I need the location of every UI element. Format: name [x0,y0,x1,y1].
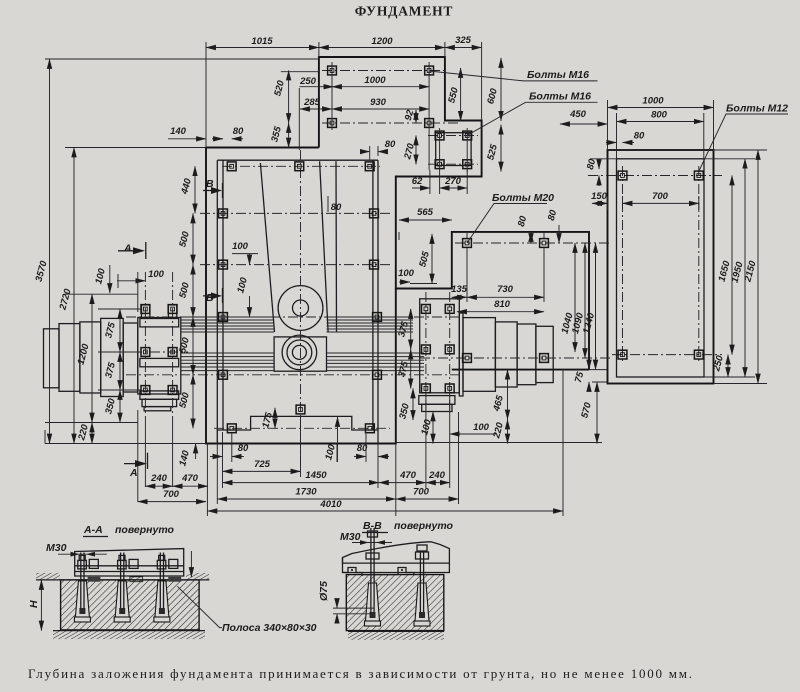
dim 355 [288,123,290,148]
foundation left edge [206,148,396,444]
svg-text:520: 520 [272,79,287,98]
svg-text:2720: 2720 [57,287,74,312]
right side extension verticals [467,233,544,302]
svg-text:100: 100 [93,267,108,286]
right ribbed shaft band lower [327,353,425,371]
dims 375 375 350 220 left plate [119,309,121,352]
svg-text:350: 350 [397,402,412,421]
dim 1200 [319,47,445,49]
dims 375 375 right plate [410,309,412,350]
svg-text:570: 570 [579,401,594,420]
svg-text:240: 240 [150,473,168,484]
central block inner flange lines [223,160,373,430]
foundation block hatched B-B [346,575,444,631]
studs A-A [81,553,164,613]
machine base plate A-A [75,549,184,576]
svg-text:730: 730 [497,284,514,295]
svg-text:375: 375 [396,360,411,379]
dim 440 [194,166,196,213]
svg-text:470: 470 [181,473,199,484]
svg-text:А: А [123,243,132,255]
dim 100 left edge bolts [249,254,251,265]
svg-text:700: 700 [413,487,430,498]
dim 3570 [49,59,51,444]
svg-text:80: 80 [634,131,645,142]
anchor sleeve bolt 3 [155,581,169,617]
dim 525 [500,125,502,172]
dim 565 [399,219,452,221]
anchor sleeve B-B bolt1 [366,583,380,621]
svg-text:100: 100 [232,241,249,252]
bolt row 1 top block [322,70,445,72]
dim 810 [457,311,544,313]
down arrow at plate right [190,551,192,577]
dim 505 [431,234,433,284]
right plan view outline [608,150,714,384]
svg-text:150: 150 [591,191,608,202]
svg-text:465: 465 [491,394,506,414]
dim 100 h right [450,433,496,435]
svg-text:80: 80 [233,126,244,137]
left plate columns [145,272,172,425]
foundation top-right block outline [319,57,589,370]
svg-text:350: 350 [103,397,118,416]
row3 1450 470 240 [223,482,379,484]
top nuts A-A bolt3 [157,560,166,569]
svg-text:700: 700 [163,489,180,500]
dims 240 470 700 bottom-left [145,485,172,487]
svg-text:135: 135 [451,284,468,295]
gear housing rect [274,337,326,371]
dim 140 [168,138,206,140]
svg-text:1000: 1000 [364,75,386,86]
svg-text:810: 810 [494,299,511,310]
dim 250 [300,86,334,88]
bolts right coupling plate [422,305,431,314]
big circle shaft [278,286,323,331]
housing webs [260,161,336,332]
svg-text:повернуто: повернуто [115,524,175,536]
bolts top edge of block [227,162,236,171]
M16 plate rows [428,136,478,165]
left motor shaft steps [44,318,138,396]
bolts M12 right plan [618,171,627,180]
svg-text:Глубина заложения фундамента п: Глубина заложения фундамента принимается… [28,666,692,681]
top nuts B-B [368,531,378,537]
bolt row 2 top block [322,122,460,124]
dims 80 80 at M20 [530,232,532,243]
anchor sleeve B-B bolt2 [415,583,429,621]
dim 92 [415,110,417,123]
dim 140 left flange [195,444,197,460]
dim 465 [507,370,509,420]
H dim A-A [40,580,42,631]
right plan extensions [608,100,768,384]
svg-text:505: 505 [417,250,432,269]
dim 75 [588,362,590,370]
leader bolts M12 [699,114,788,171]
dim 600 [500,58,502,121]
dim 220 right [507,420,509,444]
bottom bolt row [214,427,390,429]
bottom dims row1 [210,456,223,458]
top nuts A-A bolt1 [78,560,87,569]
right plan gap step lines [589,370,607,382]
dim 730 [467,296,544,298]
svg-text:А-А: А-А [83,524,103,536]
svg-text:100: 100 [148,269,165,280]
row4 1730 700 [217,498,395,500]
dim 350 right plate [412,388,414,420]
machine (gearbox) outline [181,160,424,443]
dim 100 rot right [432,412,434,444]
dim 135 [452,296,467,298]
svg-text:100: 100 [398,268,415,279]
anchor sleeve bolt 2 [115,581,129,617]
leader bolts M16 #2 [467,102,597,135]
stud bottom nuts B-B [370,612,376,618]
foundation pockets B-B [343,568,415,577]
svg-text:565: 565 [417,207,434,218]
dim 285 [300,108,332,110]
svg-text:92: 92 [403,108,417,122]
dim 1015 [206,47,319,49]
svg-text:285: 285 [303,97,321,108]
svg-text:75: 75 [573,370,587,384]
svg-text:М30: М30 [46,542,67,554]
svg-text:80: 80 [385,139,396,150]
left ribbed shaft band lower [181,353,274,371]
right plan dims [608,107,714,109]
svg-text:1015: 1015 [251,36,273,47]
dims 1040 1090 1240 [574,243,576,352]
svg-text:80: 80 [516,214,530,228]
M12 rows [588,176,722,355]
anchor sleeve bolt 1 [75,581,89,617]
leader polosa [177,586,222,627]
right ribbed shaft band upper [327,317,414,332]
svg-text:175: 175 [260,411,275,430]
dim 100 pair top of left plate [109,265,111,293]
svg-text:450: 450 [569,109,587,120]
svg-text:500: 500 [177,281,192,300]
bottom-right extension line [396,442,602,444]
foundation block hatched A-A [61,580,200,630]
svg-text:Болты М12: Болты М12 [726,103,788,115]
svg-text:ФУНДАМЕНТ: ФУНДАМЕНТ [355,4,453,19]
bottom dims row2 725 [223,470,301,472]
svg-text:800: 800 [651,110,668,121]
svg-text:80: 80 [331,202,342,213]
dim 520 [288,71,290,124]
svg-text:375: 375 [396,320,411,339]
bolts M16 row2 upper block [328,119,337,128]
M16 bolt plate (upper right) [436,133,471,166]
svg-text:Болты М16: Болты М16 [529,91,591,103]
bottom extension verticals [207,370,563,516]
svg-text:Ø75: Ø75 [318,581,330,601]
right plate columns [426,292,450,412]
stud bottom nuts A-A [79,608,85,614]
svg-text:80: 80 [546,208,560,222]
dim 80 top-left arrows out [212,138,223,140]
dim 570 [596,382,598,444]
bolts M16 row1 upper block [328,66,337,75]
left extents [45,294,206,443]
svg-text:375: 375 [103,321,118,340]
svg-text:250: 250 [299,76,317,87]
dim 62 [412,187,430,189]
dim 930 [332,108,429,110]
svg-text:4010: 4010 [319,499,342,510]
svg-text:140: 140 [170,126,187,137]
dims 500 x4 left [192,213,194,264]
bolts right edge column [370,209,379,218]
top nuts A-A bolt2 [118,560,127,569]
drive block bottom edge [452,369,589,371]
svg-text:1200: 1200 [76,342,92,366]
svg-text:220: 220 [76,423,91,443]
right shaft cone steps [459,313,553,396]
svg-text:140: 140 [177,449,192,468]
svg-text:повернуто: повернуто [394,520,454,532]
bolts left edge column [219,209,228,218]
svg-text:600: 600 [485,87,500,106]
svg-text:1450: 1450 [305,470,327,481]
leader bolts M20 [467,204,547,244]
dim 550 [460,68,462,121]
block bottom corners [217,430,378,444]
foundation outline (main slab) [206,57,607,444]
svg-text:440: 440 [179,177,194,197]
svg-text:500: 500 [177,336,192,355]
lower circle shaft [282,335,317,370]
left coupling plate [138,305,181,411]
svg-text:270: 270 [444,176,462,187]
bolt column extensions top [332,62,467,194]
svg-text:100: 100 [473,422,490,433]
svg-text:Полоса 340×80×30: Полоса 340×80×30 [222,622,317,634]
dim 80 top edge right bolt [361,151,370,153]
svg-text:220: 220 [491,421,506,441]
svg-text:В-В: В-В [363,520,382,532]
svg-text:100: 100 [323,443,338,462]
dim 175 small [274,408,276,428]
studs B-B [371,528,424,616]
svg-text:500: 500 [177,230,192,249]
dim 1200 left [91,294,93,422]
dim 325 [445,47,482,49]
ground line A-A [36,579,209,581]
dim 100 M20 notch [399,281,410,283]
dim 2720 [73,148,75,444]
bolts bottom edge [227,424,236,433]
svg-text:355: 355 [269,125,284,144]
svg-text:М30: М30 [340,531,361,543]
dim 270 vertical [415,136,417,165]
bolts left coupling plate [141,305,150,314]
leader bolts M16 #1 [429,71,597,81]
svg-text:1730: 1730 [295,487,317,498]
svg-text:725: 725 [254,459,271,470]
svg-text:100: 100 [235,276,250,295]
svg-text:Болты М20: Болты М20 [492,192,554,204]
svg-text:270: 270 [402,142,417,162]
svg-text:А: А [129,467,138,479]
extension row1 to 520 dim [281,72,319,150]
center line vertical main [300,150,302,470]
dim 270 h [440,187,468,189]
svg-text:100: 100 [419,418,434,437]
left/right edge bolt rows [200,212,392,214]
bolts M20 [463,239,472,248]
M20 rows [455,242,612,244]
dim 1000 top [332,86,429,88]
left ribbed shaft band upper [181,317,274,332]
bolts M16 plate [435,131,444,140]
svg-text:470: 470 [399,470,417,481]
svg-text:240: 240 [428,470,446,481]
svg-text:1200: 1200 [371,36,393,47]
svg-text:325: 325 [455,35,472,46]
svg-text:375: 375 [103,361,118,380]
svg-text:80: 80 [357,443,368,454]
svg-text:930: 930 [370,97,387,108]
right coupling plate [419,299,460,412]
machine outline B-B [343,542,450,563]
svg-text:3570: 3570 [34,259,50,283]
svg-text:Н: Н [28,600,40,608]
ground hatch under foundation A-A [53,631,205,640]
top edge bolt row [222,165,380,167]
svg-text:80: 80 [238,443,249,454]
svg-text:525: 525 [485,143,500,162]
svg-text:Болты М16: Болты М16 [527,69,589,81]
ground hatch under foundation B-B [348,631,444,640]
central block outer [217,160,378,430]
grout pads A-A [88,577,101,582]
svg-text:1000: 1000 [642,96,664,107]
svg-text:62: 62 [412,176,423,187]
top extents [45,42,482,148]
row5 4010 [207,510,563,512]
svg-text:550: 550 [446,86,461,105]
svg-text:700: 700 [652,191,669,202]
